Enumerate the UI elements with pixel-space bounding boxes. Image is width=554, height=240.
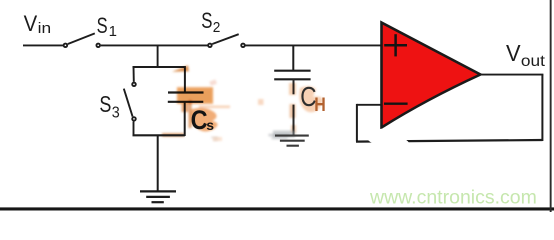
capacitor CH xyxy=(274,71,310,80)
label S3 xyxy=(99,91,119,122)
svg-text:V: V xyxy=(506,40,521,66)
label S2 xyxy=(201,8,220,36)
node Vin label xyxy=(24,11,51,37)
switch S1 xyxy=(63,33,101,48)
wire feedback right vertical xyxy=(541,75,543,142)
svg-text:C: C xyxy=(191,105,208,135)
border bottom xyxy=(0,207,554,210)
label Cs with orange halo xyxy=(189,100,218,132)
svg-text:1: 1 xyxy=(109,23,117,40)
border right xyxy=(550,0,552,212)
op-amp U1 (red triangle) xyxy=(382,23,481,128)
wire output xyxy=(480,74,543,76)
ground (CH) with gray smudge xyxy=(273,131,295,138)
wire left branch to S3 xyxy=(133,66,135,82)
wire inverting input xyxy=(357,104,381,106)
svg-text:S: S xyxy=(99,91,111,117)
wire CH branch stem xyxy=(292,45,294,70)
svg-text:in: in xyxy=(38,20,52,37)
svg-text:H: H xyxy=(314,95,326,116)
wire feedback bottom xyxy=(356,140,543,142)
wire S1 to S2 xyxy=(101,44,208,46)
svg-text:S: S xyxy=(201,8,212,33)
wire junction stem down from main wire xyxy=(157,45,159,67)
wire S3 to bottom bar xyxy=(133,121,135,136)
wire Vin to S1 xyxy=(23,44,64,46)
wire Cs to bottom bar xyxy=(184,102,186,136)
op-amp - input symbol xyxy=(384,102,408,104)
node Vout label xyxy=(506,40,546,70)
white blob erasing corner and line xyxy=(367,129,409,150)
svg-text:3: 3 xyxy=(112,105,120,122)
svg-text:2: 2 xyxy=(213,19,221,36)
op-amp + input symbol xyxy=(384,34,407,56)
wire CH to ground (lower segment) xyxy=(293,105,295,135)
wire bottom bar of Cs loop xyxy=(133,134,185,136)
capacitor Cs xyxy=(168,93,204,102)
orange highlight band over Cs xyxy=(162,65,230,141)
switch S2 xyxy=(207,34,246,48)
svg-text:s: s xyxy=(206,117,214,133)
orange dabs on CH stem xyxy=(258,83,296,133)
stray faint mark right of Cs loop xyxy=(211,137,218,141)
wire T-bar over Cs loop xyxy=(133,66,186,68)
svg-text:V: V xyxy=(24,11,38,36)
wire right branch to Cs xyxy=(184,66,186,92)
svg-text:S: S xyxy=(97,13,108,38)
label CH xyxy=(299,86,323,112)
label S1 xyxy=(97,13,117,40)
stray pink dash xyxy=(209,79,217,85)
switch S3 xyxy=(124,82,137,122)
wire feedback left vertical xyxy=(356,104,358,142)
svg-text:out: out xyxy=(521,53,546,70)
ground (Cs) xyxy=(140,191,176,202)
wire CH to ground (upper segment) xyxy=(293,80,295,95)
wire stem to ground xyxy=(157,135,159,191)
wire S2 to op-amp xyxy=(245,44,380,46)
svg-text:www.cntronics.com: www.cntronics.com xyxy=(369,187,537,209)
